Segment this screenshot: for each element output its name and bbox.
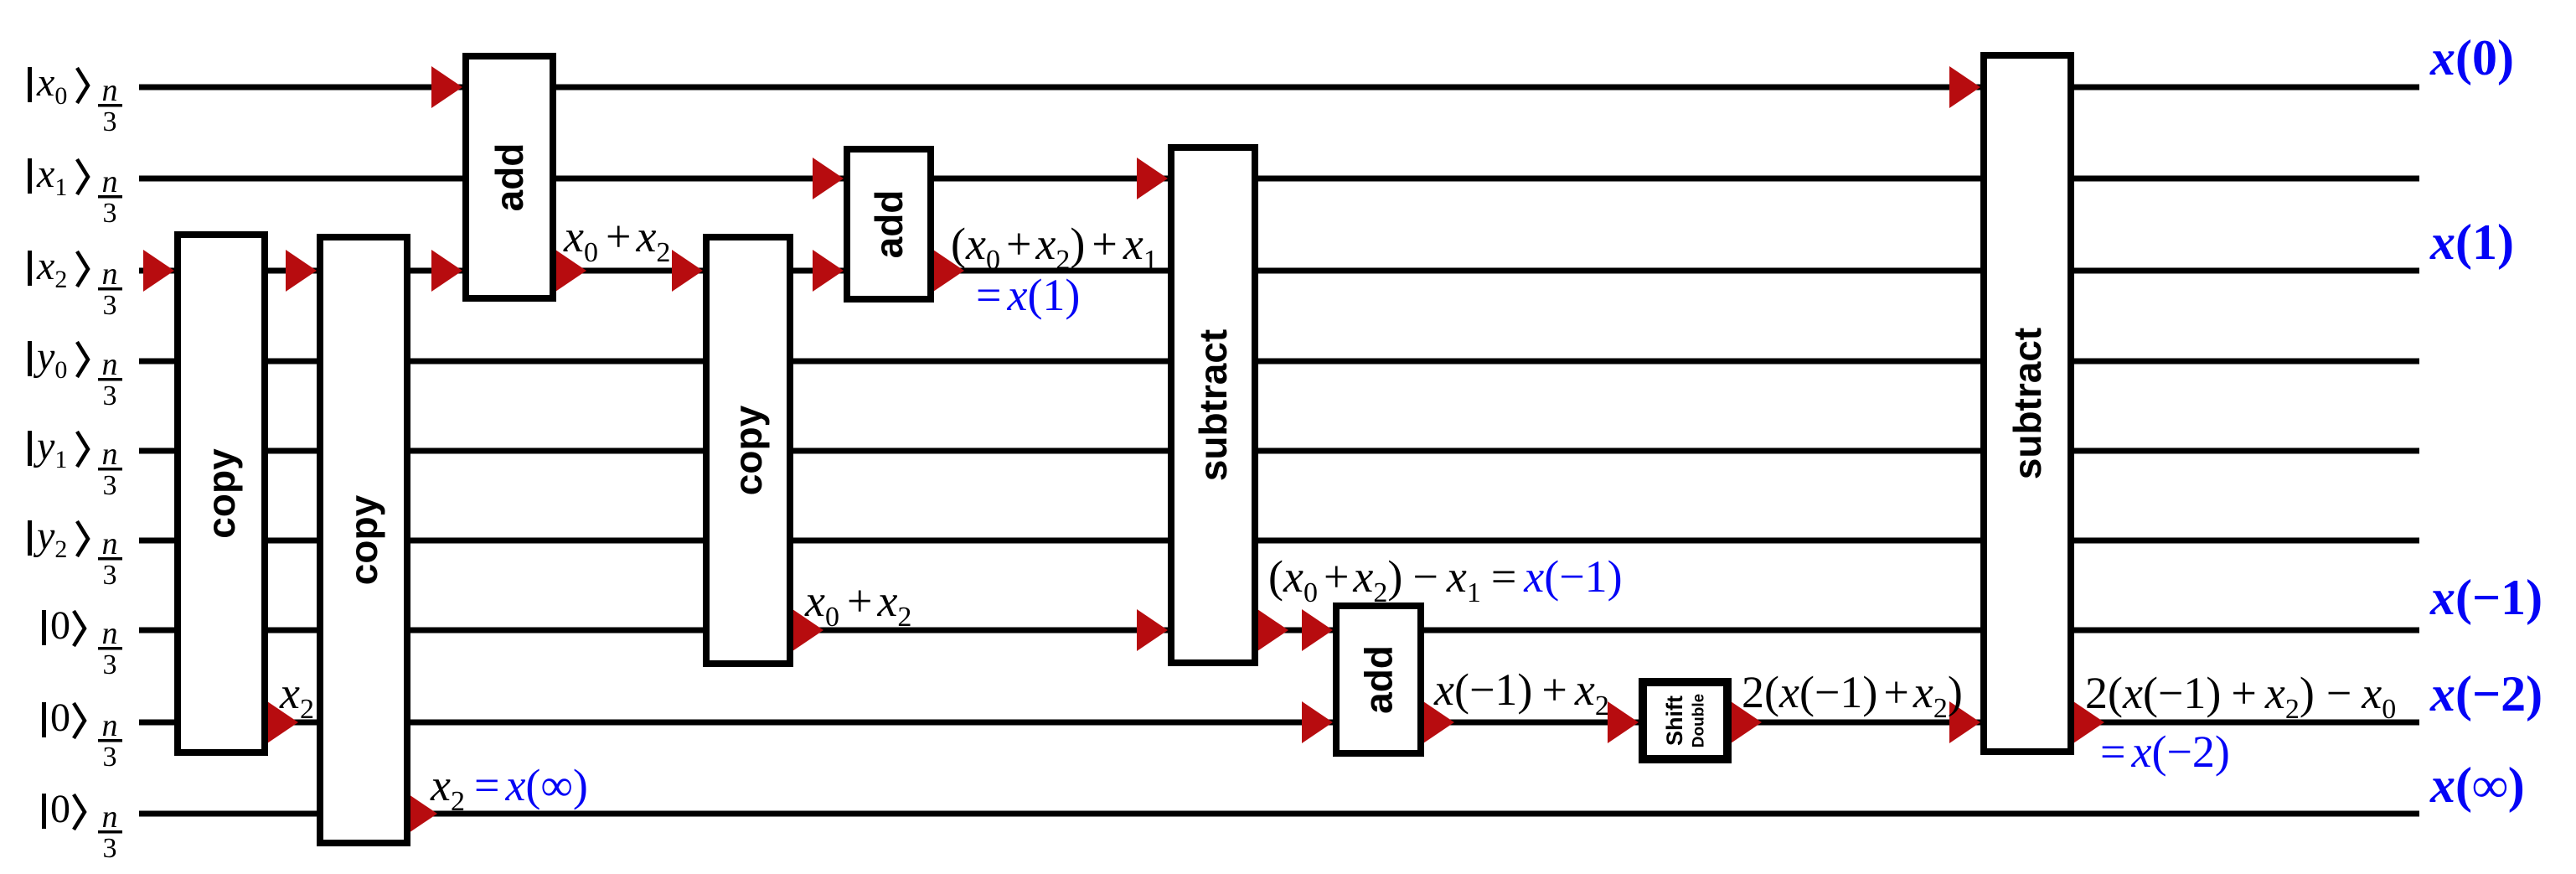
wire: |y1> qubit wire <box>139 448 2419 454</box>
arrow out of add G5 on |x2> wire <box>933 250 964 292</box>
arrow into subtract G9 on wire 8 <box>1949 701 1980 743</box>
svg-text:n: n <box>102 616 118 651</box>
svg-text:0: 0 <box>50 787 70 831</box>
arrow into add G5 on |x2> wire <box>813 250 844 292</box>
input label |x2> n/3 <box>28 244 122 321</box>
input label |y1> n/3 <box>28 424 122 501</box>
svg-text:add: add <box>867 190 911 259</box>
svg-text:(x0+x2)+x1: (x0+x2)+x1 <box>951 219 1158 276</box>
input label |x0> n/3 <box>28 60 122 137</box>
gate box add1 (add) <box>466 56 553 298</box>
svg-text:3: 3 <box>103 833 117 864</box>
svg-text:n: n <box>102 164 118 199</box>
gate box add3 (add) <box>1336 606 1421 753</box>
svg-text:x0+x2: x0+x2 <box>563 211 670 268</box>
gate box copy2 (copy) <box>320 237 407 843</box>
svg-text:0: 0 <box>50 696 70 740</box>
arrow into subtract G6 on wire 7 <box>1137 609 1168 651</box>
svg-text:0: 0 <box>50 603 70 648</box>
arrow into add G7 on wire 7 <box>1302 609 1333 651</box>
svg-text:x(−2): x(−2) <box>2429 666 2542 721</box>
wire: |x1> qubit wire <box>139 176 2419 182</box>
input label |0> (wire 9) n/3 <box>42 787 122 864</box>
svg-text:subtract: subtract <box>1191 329 1235 481</box>
gate box shift (shift) <box>1643 682 1727 759</box>
arrow into copy G2 on |x2> wire <box>286 250 317 292</box>
input label |0> (wire 7) n/3 <box>42 603 122 680</box>
arrow into copy G4 on |x2> wire <box>672 250 703 292</box>
gate box add2 (add) <box>847 149 931 299</box>
gate box copy3 (copy) <box>706 237 790 664</box>
svg-text:3: 3 <box>103 380 117 411</box>
svg-text:3: 3 <box>103 742 117 773</box>
input label |0> (wire 8) n/3 <box>42 696 122 773</box>
wire: |y2> qubit wire <box>139 538 2419 544</box>
svg-text:add: add <box>488 143 531 212</box>
svg-text:x(∞): x(∞) <box>2429 758 2525 813</box>
svg-text:3: 3 <box>103 470 117 501</box>
svg-text:x0+x2: x0+x2 <box>804 576 911 633</box>
svg-text:x(−1): x(−1) <box>2429 570 2542 625</box>
svg-text:n: n <box>102 437 118 472</box>
arrow out of copy G4 on wire 7 <box>792 609 823 651</box>
arrow into subtract G6 on |x1> wire <box>1137 158 1168 199</box>
arrow into add G5 on |x1> wire <box>813 158 844 199</box>
svg-text:n: n <box>102 73 118 108</box>
gate box subtract2 (subtract) <box>1984 55 2071 752</box>
wire: ancilla |0> wire 9 <box>139 811 2419 817</box>
svg-text:n: n <box>102 347 118 382</box>
svg-text:3: 3 <box>103 198 117 229</box>
input label |y0> n/3 <box>28 334 122 411</box>
input label |x1> n/3 <box>28 152 122 229</box>
svg-text:add: add <box>1357 645 1401 714</box>
arrow into add G7 on wire 8 <box>1302 701 1333 743</box>
wire: |x0> qubit wire <box>139 85 2419 91</box>
arrow out of add G7 on wire 8 <box>1423 701 1454 743</box>
gate box subtract1 (subtract) <box>1171 147 1255 663</box>
arrow into copy G1 on |x2> wire <box>143 250 174 292</box>
arrow into add G3 on |x2> wire <box>431 250 462 292</box>
wire: ancilla |0> wire 7 <box>139 628 2419 634</box>
svg-text:2(x(−1)+x2)−x0: 2(x(−1)+x2)−x0 <box>2085 668 2396 725</box>
arrow into subtract G9 on |x0> wire <box>1949 66 1980 108</box>
svg-text:3: 3 <box>103 649 117 680</box>
svg-text:subtract: subtract <box>2006 328 2049 479</box>
svg-text:copy: copy <box>199 448 243 539</box>
arrow out of copy G2 on wire 9 <box>406 793 437 835</box>
arrow out of shift-double G8 on wire 8 <box>1731 701 1762 743</box>
arrow out of add G3 on |x2> wire <box>555 250 586 292</box>
gate box copy1 (copy) <box>178 235 265 752</box>
svg-text:=x(−2): =x(−2) <box>2100 727 2230 777</box>
svg-text:copy: copy <box>342 494 385 585</box>
svg-text:x(0): x(0) <box>2429 30 2514 85</box>
svg-text:=x(1): =x(1) <box>976 270 1080 320</box>
svg-text:n: n <box>102 256 118 292</box>
svg-text:3: 3 <box>103 560 117 591</box>
svg-text:3: 3 <box>103 106 117 137</box>
arrow out of subtract G9 on wire 8 <box>2073 701 2104 743</box>
svg-text:2(x(−1)+x2): 2(x(−1)+x2) <box>1742 667 1963 724</box>
wire: ancilla |0> wire 8 <box>139 720 2419 726</box>
svg-text:Shift: Shift <box>1662 696 1687 746</box>
svg-text:n: n <box>102 526 118 561</box>
svg-text:copy: copy <box>726 405 770 495</box>
svg-text:n: n <box>102 799 118 835</box>
wire: |y0> qubit wire <box>139 359 2419 365</box>
input label |y2> n/3 <box>28 514 122 591</box>
svg-text:x(1): x(1) <box>2429 215 2514 270</box>
wire: |x2> qubit wire <box>139 268 2419 274</box>
svg-text:3: 3 <box>103 290 117 321</box>
arrow out of copy G1 on wire 8 <box>267 701 298 743</box>
svg-text:n: n <box>102 708 118 743</box>
svg-text:Double: Double <box>1691 694 1708 747</box>
svg-text:x(−1)+x2: x(−1)+x2 <box>1433 665 1609 721</box>
arrow into shift-double G8 on wire 8 <box>1608 701 1639 743</box>
arrow into add G3 on |x0> wire <box>431 66 462 108</box>
arrow out of subtract G6 on wire 7 <box>1257 609 1288 651</box>
